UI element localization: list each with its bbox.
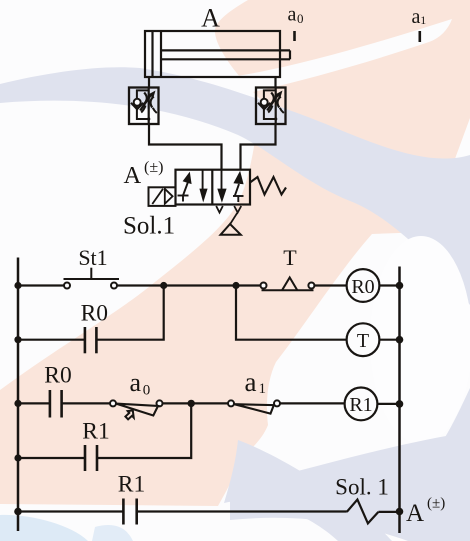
svg-text:A: A bbox=[201, 4, 220, 33]
svg-text:R0: R0 bbox=[351, 276, 374, 298]
svg-text:R1: R1 bbox=[349, 394, 372, 416]
svg-text:a: a bbox=[130, 368, 142, 397]
wire a0 to node C bbox=[162, 402, 228, 404]
label a1 (row3) bbox=[245, 367, 267, 397]
relay coil R0 bbox=[347, 269, 380, 302]
contact R0 (row3) bbox=[50, 390, 62, 418]
wire row3 to a0 bbox=[62, 402, 111, 404]
node: rail junction row4 bbox=[14, 454, 21, 461]
pushbutton contact St1 bbox=[64, 268, 120, 289]
node: rail junction row5 bbox=[14, 508, 22, 516]
right power rail bbox=[398, 267, 401, 534]
svg-text:T: T bbox=[283, 245, 297, 270]
sensor mark a0 bbox=[288, 4, 304, 42]
wire a1 to coil R1 bbox=[280, 402, 345, 404]
svg-text:R0: R0 bbox=[81, 301, 108, 327]
flow control valve V1 (left, check valve + restrictor) bbox=[129, 87, 159, 124]
svg-text:R1: R1 bbox=[82, 419, 109, 445]
svg-text:Sol. 1: Sol. 1 bbox=[335, 475, 389, 500]
limit switch contact a1 (normally open) bbox=[228, 400, 280, 413]
wire: cylinder right port down to flow valve V2 bbox=[274, 77, 276, 88]
node: right rail row3 bbox=[396, 400, 404, 408]
svg-text:(±): (±) bbox=[427, 496, 445, 512]
wire row1 to coil R0 bbox=[314, 284, 346, 286]
wire solenoid to right rail bbox=[378, 511, 399, 513]
node: right rail row2 bbox=[396, 336, 404, 344]
node C (row3 to row4 branch) bbox=[188, 400, 195, 407]
contact R1 (row5) bbox=[123, 499, 136, 525]
flow control valve V2 (right, check valve + restrictor) bbox=[256, 87, 286, 124]
wire row2 to riser bbox=[96, 286, 163, 340]
label A(±) at valve bbox=[124, 159, 164, 189]
relay coil R1 bbox=[345, 388, 378, 421]
timer coil T bbox=[347, 323, 380, 356]
wire row4 left bbox=[18, 457, 85, 459]
wire: cylinder left port down to flow valve V1 bbox=[148, 77, 150, 88]
solenoid actuator box (Sol.1) bbox=[149, 187, 176, 206]
svg-text:R1: R1 bbox=[118, 472, 145, 498]
svg-text:a: a bbox=[245, 367, 257, 397]
riser B to T coil row bbox=[236, 286, 347, 340]
exhaust silencer triangle bbox=[221, 224, 241, 235]
svg-text:St1: St1 bbox=[78, 245, 107, 270]
exhaust port triangles bbox=[216, 206, 241, 224]
wire: V2 to directional valve right top port bbox=[241, 124, 276, 170]
wire row2 left bbox=[18, 339, 85, 341]
wire row5 to solenoid bbox=[137, 510, 347, 512]
sensor mark a1 bbox=[412, 6, 427, 42]
wire row4 to riser C bbox=[97, 403, 191, 458]
cylinder A body bbox=[145, 31, 290, 77]
node: rail junction row3 bbox=[14, 400, 21, 407]
solenoid coil Sol.1 (zigzag) bbox=[347, 500, 379, 524]
svg-text:0: 0 bbox=[143, 383, 151, 399]
contact R1 (row4) bbox=[85, 445, 97, 471]
svg-text:R0: R0 bbox=[44, 363, 71, 389]
limit switch contact a0 (actuated) bbox=[110, 400, 163, 419]
timer contact T (normally closed) bbox=[261, 278, 315, 291]
wire row3 left bbox=[18, 402, 50, 404]
node A (row1 to row2 branch) bbox=[160, 282, 167, 289]
wire: V1 to directional valve left top port bbox=[149, 124, 222, 170]
svg-text:A: A bbox=[406, 500, 424, 527]
label a0 (row3) bbox=[130, 368, 151, 399]
svg-text:T: T bbox=[357, 330, 369, 352]
svg-text:1: 1 bbox=[420, 13, 426, 27]
node: right rail row5 bbox=[396, 508, 404, 516]
valve right cell: arrows and blocked port T bbox=[217, 170, 243, 203]
left power rail bbox=[17, 258, 20, 532]
return spring bbox=[250, 177, 286, 195]
valve left cell: blocked port T and arrows bbox=[178, 171, 208, 203]
wire coil T to right rail bbox=[379, 339, 399, 341]
svg-text:A: A bbox=[124, 162, 142, 189]
wire coil R0 to right rail bbox=[379, 284, 399, 286]
svg-text:0: 0 bbox=[297, 11, 304, 26]
node: rail junction row2 bbox=[14, 336, 21, 343]
svg-text:(±): (±) bbox=[144, 159, 163, 176]
wire coil R1 to right rail bbox=[377, 403, 399, 405]
svg-text:1: 1 bbox=[259, 381, 267, 397]
svg-text:Sol.1: Sol.1 bbox=[123, 213, 175, 240]
svg-text:a: a bbox=[412, 6, 421, 28]
node B (row1 to T-coil branch) bbox=[232, 282, 239, 289]
node: rail junction row1 bbox=[14, 282, 21, 289]
wire row1 middle bbox=[117, 284, 261, 286]
directional valve body bbox=[176, 170, 251, 205]
node: right rail row1 bbox=[396, 282, 404, 290]
wire row1 left bbox=[18, 284, 64, 286]
label A(±) bottom right bbox=[406, 496, 445, 528]
contact R0 (self holding) bbox=[85, 327, 97, 353]
wire row5 left bbox=[18, 510, 123, 512]
svg-text:a: a bbox=[288, 4, 297, 26]
